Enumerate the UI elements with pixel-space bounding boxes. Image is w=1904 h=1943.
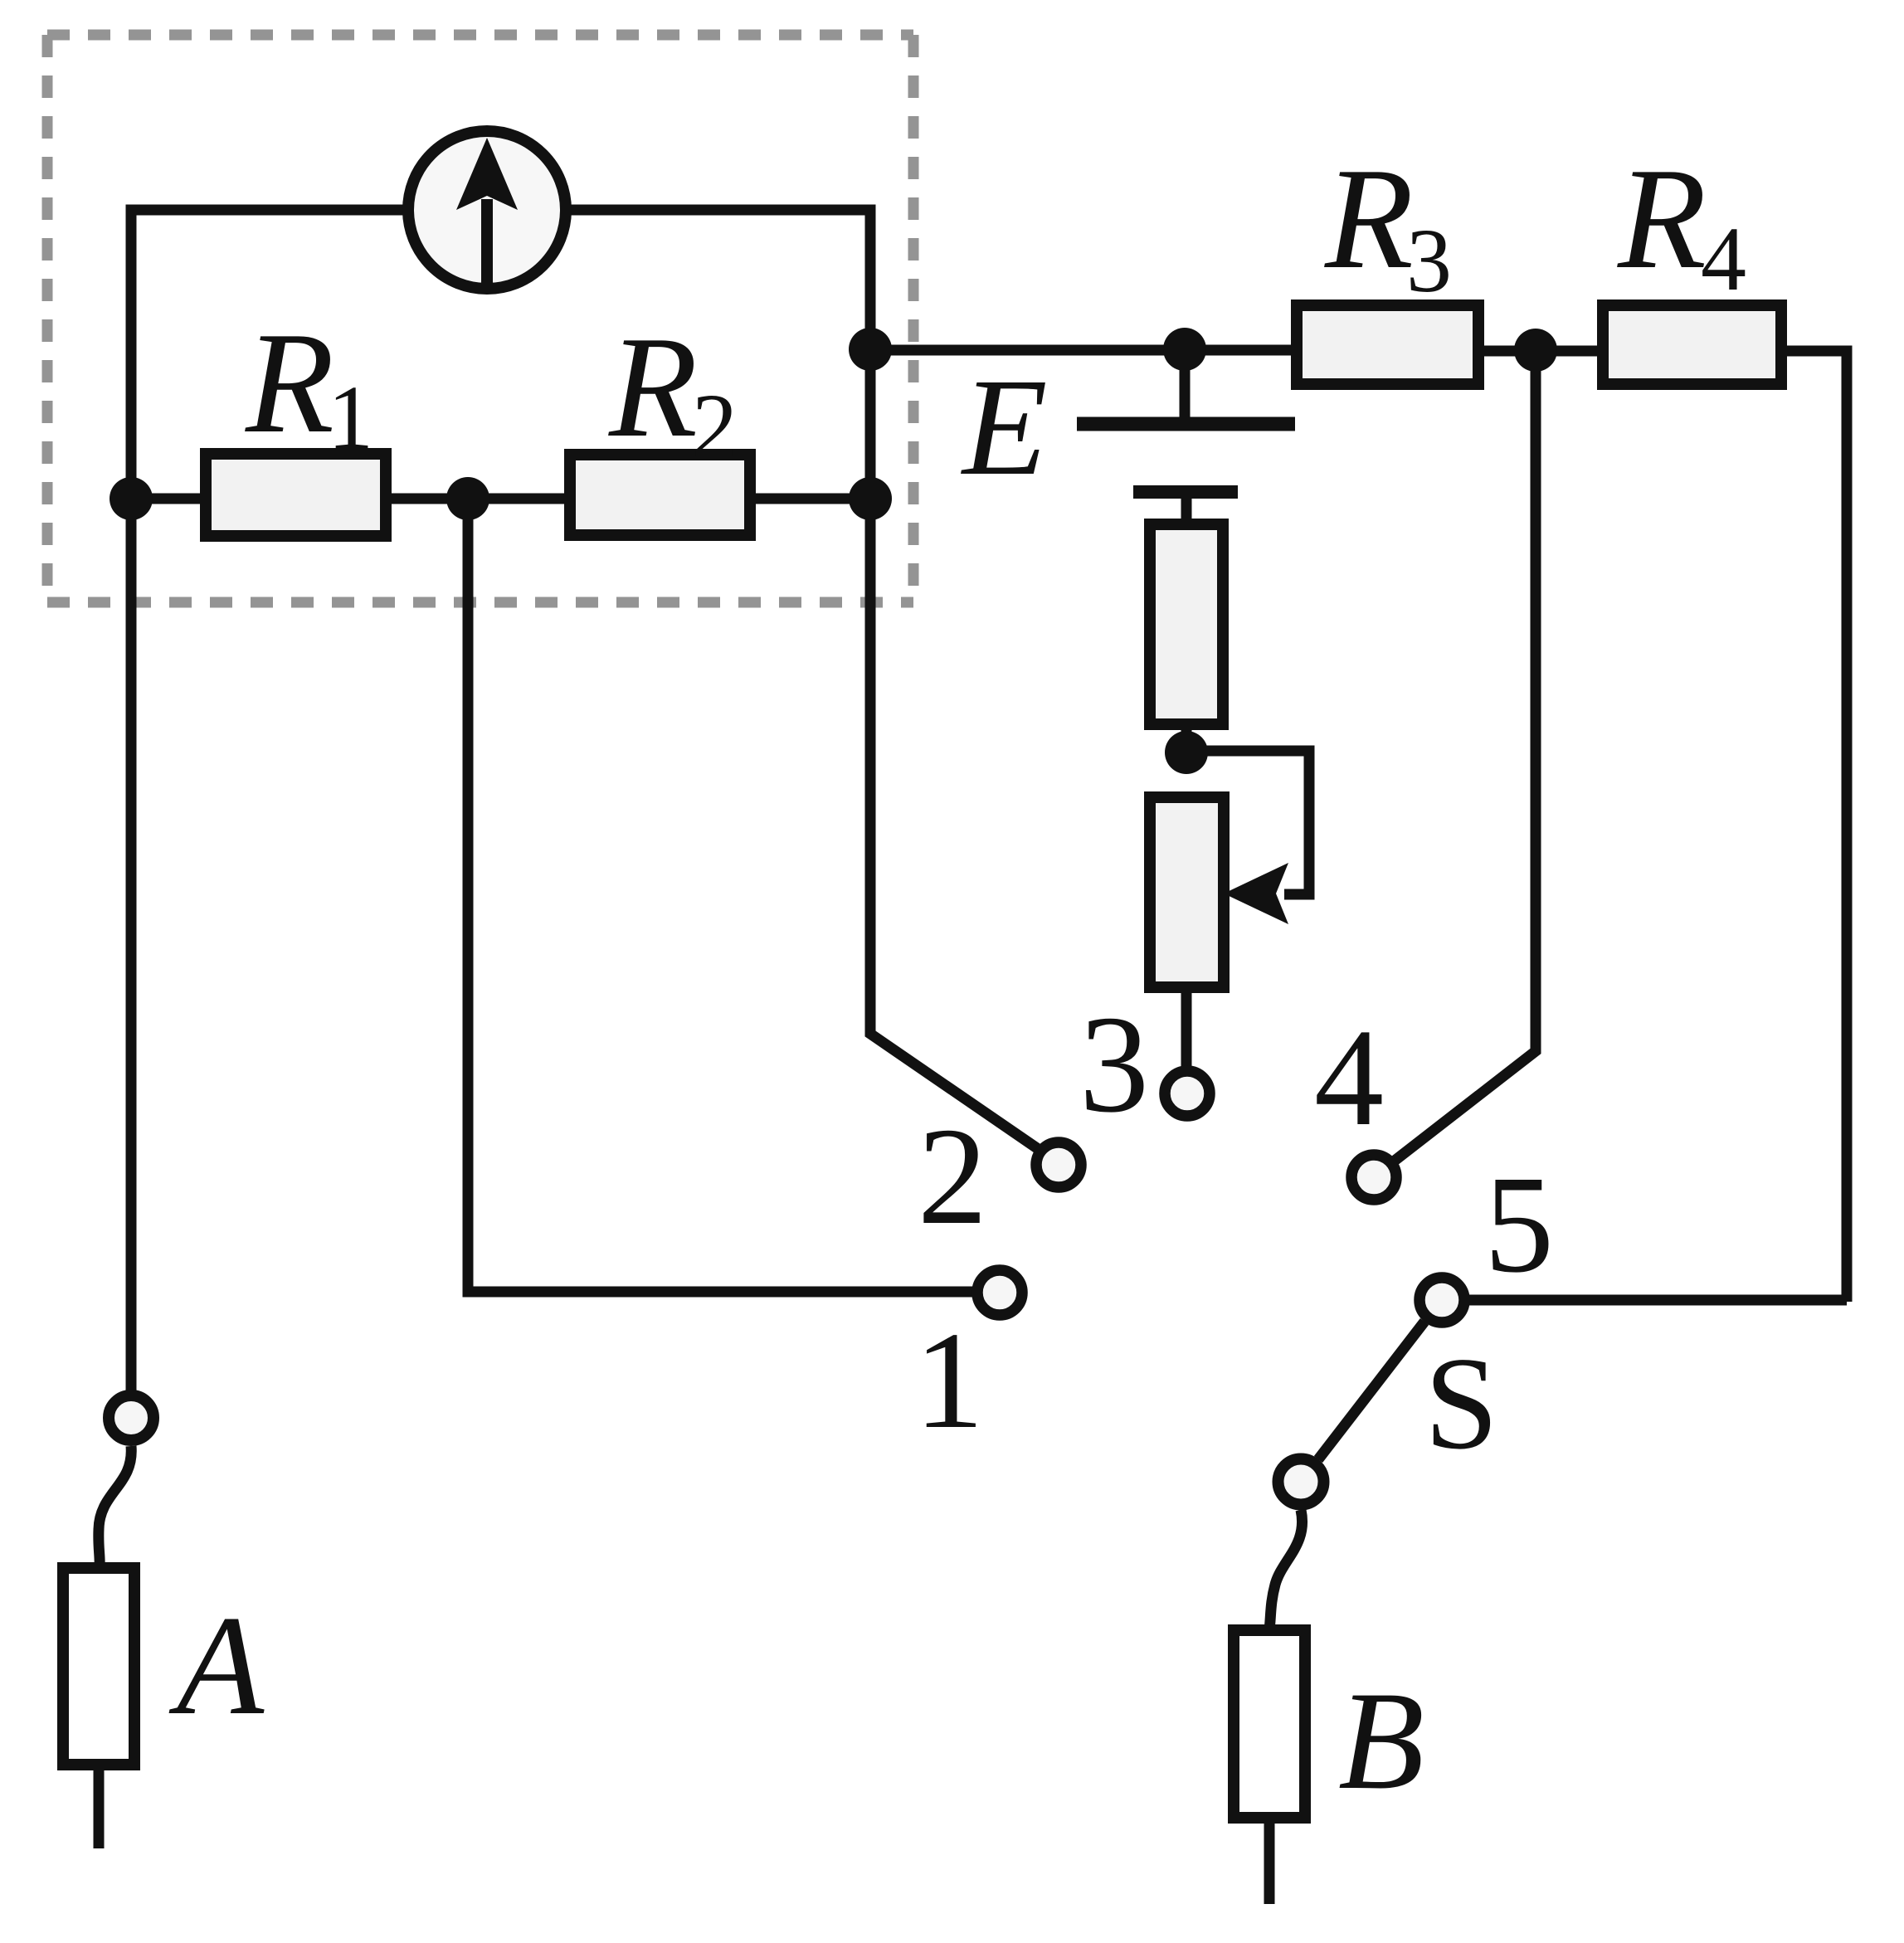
probe B body (1234, 1630, 1305, 1818)
probe A tip lead (94, 1765, 105, 1848)
svg-text:3: 3 (1079, 987, 1149, 1142)
contact 4 (1351, 1155, 1396, 1200)
svg-text:B: B (1338, 1663, 1424, 1819)
fixed resistor (protection) (1150, 524, 1223, 724)
resistor R1 (206, 454, 386, 536)
svg-text:A: A (168, 1587, 265, 1745)
svg-text:5: 5 (1484, 1147, 1554, 1302)
dashed box (47, 35, 913, 602)
wire R3R4 node down and diagonal to contact 4 (1395, 350, 1536, 1161)
wire tap loop (1186, 751, 1309, 894)
wire R3 to node (1478, 346, 1603, 357)
probe B flex lead (1269, 1510, 1303, 1630)
node R2 right (849, 477, 892, 520)
wire rheostat to contact 3 (1181, 987, 1192, 1067)
svg-text:2: 2 (692, 375, 738, 476)
svg-text:1: 1 (914, 1303, 984, 1458)
node right top (branch to E) (849, 328, 892, 371)
rheostat wiper arrow (1224, 863, 1288, 924)
resistor R2 (570, 455, 750, 535)
probe A flex lead (99, 1446, 131, 1568)
svg-text:R: R (1617, 138, 1707, 299)
rheostat body (1150, 797, 1224, 987)
resistor R3 (1297, 305, 1478, 384)
wire branch to battery (870, 345, 1297, 356)
switch S blade (1318, 1322, 1424, 1459)
node tap (1165, 731, 1208, 774)
galvanometer G (408, 131, 566, 289)
wire R2 to right node (750, 494, 870, 504)
svg-text:R: R (608, 306, 698, 467)
node junction R1-R2 (446, 477, 489, 520)
probe B tip lead (1264, 1818, 1275, 1904)
wire battery to resistor (1181, 492, 1192, 526)
svg-text:R: R (245, 302, 334, 463)
contact 3 (1165, 1071, 1210, 1116)
svg-text:2: 2 (918, 1099, 987, 1254)
probe A body (63, 1568, 134, 1765)
node left (R1 left) (110, 477, 153, 520)
wire R4 to right corner (1781, 351, 1847, 1302)
probe A terminal (109, 1395, 153, 1440)
svg-text:E: E (961, 350, 1048, 504)
resistor R4 (1603, 305, 1781, 384)
wire contact 5 to right (1469, 1295, 1847, 1306)
svg-text:R: R (1324, 138, 1414, 299)
wire resistor to tap node (1181, 724, 1192, 752)
node above battery (1163, 328, 1206, 371)
svg-text:4: 4 (1701, 208, 1746, 309)
wire top right, down right side, diagonal to contact 2 (566, 210, 1037, 1148)
svg-text:1: 1 (328, 367, 373, 468)
wire R1 to R2 through junction (386, 494, 570, 504)
node R3-R4 (1514, 329, 1557, 372)
svg-text:3: 3 (1406, 210, 1452, 311)
wire left node to R1 (131, 494, 206, 504)
svg-text:4: 4 (1314, 1001, 1384, 1155)
wire junction down to contact 1 (468, 499, 973, 1292)
contact 2 (1036, 1142, 1081, 1187)
wire left vertical (131, 210, 408, 1390)
battery E short plate (1133, 485, 1238, 499)
battery E long plate (1077, 417, 1295, 431)
switch S pivot (1278, 1459, 1324, 1505)
contact 5 (1419, 1278, 1464, 1322)
wire battery stub top (1180, 349, 1191, 418)
svg-text:S: S (1424, 1329, 1498, 1477)
contact 1 (977, 1270, 1022, 1315)
